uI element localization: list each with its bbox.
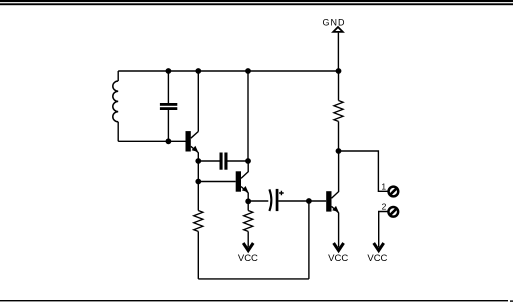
wire: jack 2 to VCC arrow — [379, 212, 389, 248]
top double border rule — [0, 0, 513, 5]
node: R3 top at bus end — [336, 68, 342, 74]
capacitor C2 (feedback capacitor) — [198, 153, 248, 170]
wire: tank bottom horizontal to Q1 base — [118, 140, 185, 142]
wire: Q1 collector vertical to top bus — [197, 71, 199, 132]
connector jack J1 — [389, 187, 399, 197]
node: Q2 emitter junction — [245, 198, 251, 204]
node: R3 bottom / output branch — [336, 148, 342, 154]
svg-text:GND: GND — [323, 17, 346, 27]
svg-text:1: 1 — [381, 182, 386, 192]
ground symbol GND — [323, 17, 346, 71]
svg-text:VCC: VCC — [367, 253, 387, 264]
wire: feedback vertical up to C3 output node — [308, 201, 310, 279]
svg-text:2: 2 — [382, 202, 387, 212]
node: Q1 collector at top bus — [195, 68, 201, 74]
inductor L1 (tank coil, left side) — [113, 71, 118, 141]
node: C3 right / feedback junction — [306, 198, 312, 204]
node: Q2 base junction on R1 line — [195, 179, 201, 185]
node: Q1 emitter junction — [195, 158, 201, 164]
wire: R3 node across and down to jack 1 — [339, 151, 389, 191]
wire: Q2 emitter down to node — [247, 193, 249, 202]
svg-text:VCC: VCC — [328, 253, 348, 264]
resistor R1 (left bias resistor) — [194, 182, 203, 279]
transistor Q1 (oscillator NPN) — [186, 131, 199, 153]
capacitor C3 (polarized output coupling) — [248, 189, 326, 211]
resistor R3 (collector load of Q3 stage) — [334, 71, 343, 151]
connector jack J2 — [388, 207, 398, 217]
wire: Q2 base from divider node — [198, 181, 235, 183]
svg-text:VCC: VCC — [238, 253, 258, 264]
wire: top horizontal bus from tank to GND node — [118, 70, 338, 72]
resistor R2 (Q2 emitter resistor) — [244, 201, 253, 231]
wire: bottom feedback run — [198, 278, 309, 280]
transistor Q2 (buffer NPN) — [236, 161, 249, 193]
node: top bus / Q2 collector branch — [245, 68, 251, 74]
bottom border rule — [0, 300, 513, 302]
wire: Q1 emitter down to node — [197, 152, 199, 182]
node: C1 bottom junction — [166, 138, 172, 144]
wire: vertical from top bus to C2 node — [247, 71, 249, 161]
node: C2 right at Q2 collector line — [245, 158, 251, 164]
power VCC arrow below Q3 emitter — [334, 213, 344, 251]
power VCC arrow below R2 — [243, 231, 253, 250]
node: C1 top junction — [166, 68, 172, 74]
transistor Q3 (output NPN) — [326, 151, 339, 213]
capacitor C1 (tank capacitor) — [160, 71, 177, 141]
power VCC arrow below jack 2 — [374, 243, 384, 251]
